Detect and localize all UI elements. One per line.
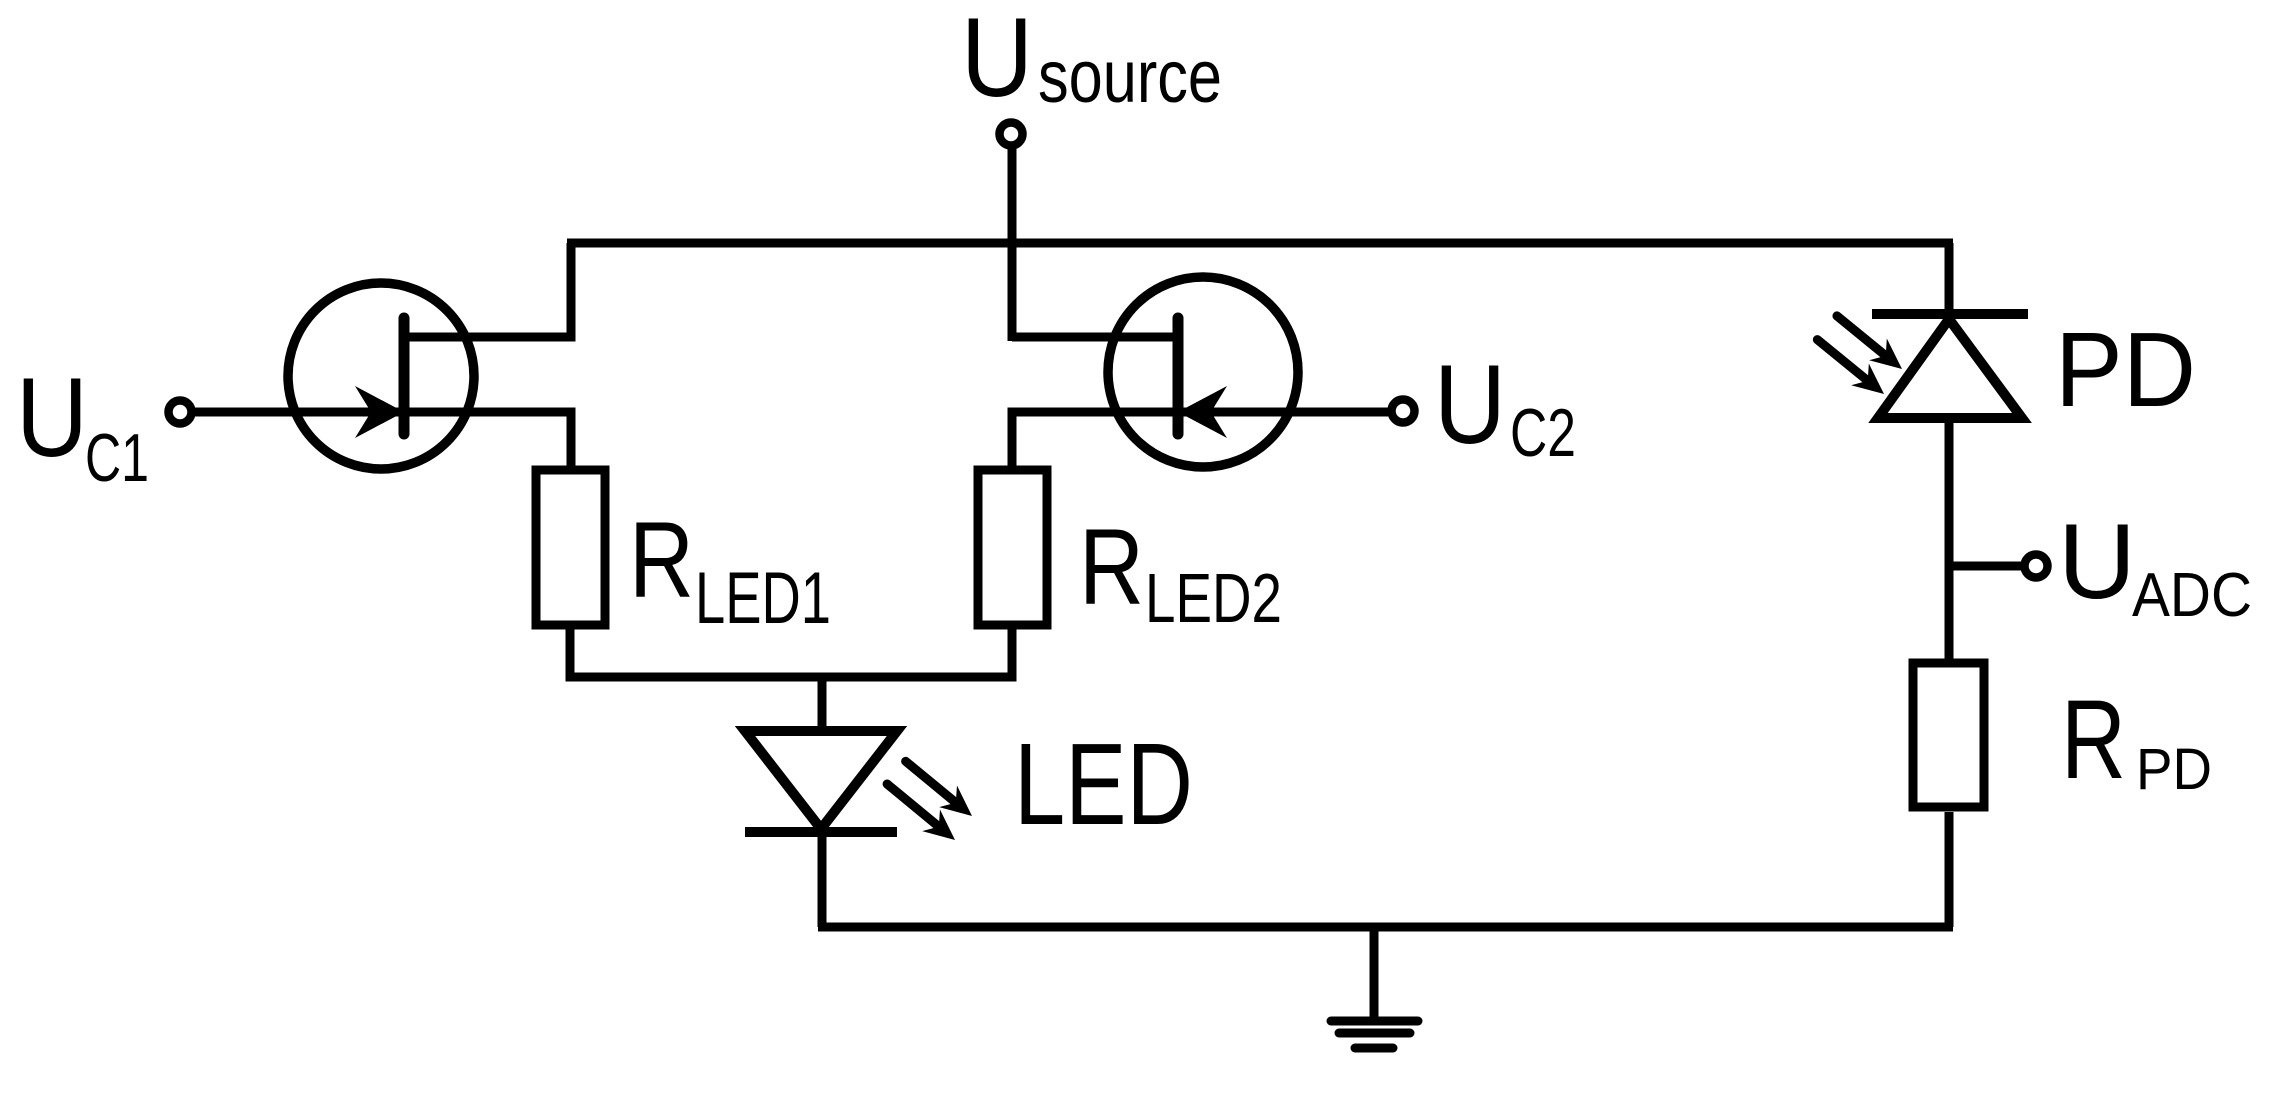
wire top rail xyxy=(567,239,1953,248)
wire T2 collector lead xyxy=(1012,333,1178,342)
label U_source xyxy=(961,0,1222,120)
svg-text:C2: C2 xyxy=(1510,395,1576,471)
wire T1 collector lead xyxy=(404,243,571,337)
wire U_ADC branch xyxy=(1949,562,2022,571)
LED emission arrow 2 xyxy=(878,773,964,851)
PD light arrow 1 xyxy=(1828,305,1911,380)
label U_ADC xyxy=(2058,501,2252,630)
svg-text:LED2: LED2 xyxy=(1145,559,1282,637)
wire bottom rail xyxy=(818,923,1953,932)
label R_LED2 xyxy=(1079,506,1282,637)
node U_C1 terminal xyxy=(169,401,192,424)
transistor T1 xyxy=(288,283,474,469)
LED emission arrow 1 xyxy=(897,750,981,826)
wire PD cathode lead xyxy=(1945,418,1954,662)
ground xyxy=(1331,927,1418,1048)
PD light arrow 2 xyxy=(1809,329,1893,405)
wire T1 emitter lead xyxy=(195,412,571,466)
svg-text:R: R xyxy=(2061,677,2126,802)
label R_LED1 xyxy=(629,499,831,639)
svg-text:ADC: ADC xyxy=(2132,561,2252,630)
label R_PD xyxy=(2061,677,2212,802)
svg-text:LED: LED xyxy=(1014,719,1193,849)
transistor T2 xyxy=(1108,277,1298,467)
svg-text:U: U xyxy=(2058,501,2136,621)
LED diode xyxy=(745,731,897,832)
node U_C2 terminal xyxy=(1392,400,1415,423)
node U_ADC terminal xyxy=(2025,555,2048,578)
label LED xyxy=(1014,719,1193,849)
node U_source terminal xyxy=(1000,123,1023,146)
svg-text:U: U xyxy=(961,0,1033,120)
svg-text:R: R xyxy=(629,499,694,620)
resistor R_LED1 xyxy=(536,470,605,625)
svg-text:C1: C1 xyxy=(85,420,149,496)
wire PD top lead xyxy=(1945,243,1954,317)
svg-text:PD: PD xyxy=(2136,737,2212,802)
wire R_LED1 bottom lead, tie line, R_LED2 bottom lead xyxy=(570,629,1012,677)
wire U_source drop xyxy=(1008,148,1017,341)
wire T2 emitter lead xyxy=(1012,412,1388,466)
svg-text:PD: PD xyxy=(2055,311,2196,429)
photodiode PD xyxy=(1872,314,2028,418)
svg-text:U: U xyxy=(1434,342,1506,467)
label U_C2 xyxy=(1434,342,1576,471)
resistor R_LED2 xyxy=(978,470,1047,625)
svg-text:source: source xyxy=(1038,35,1222,118)
svg-text:LED1: LED1 xyxy=(695,558,831,639)
resistor R_PD xyxy=(1913,663,1984,807)
svg-text:R: R xyxy=(1079,506,1144,627)
svg-text:U: U xyxy=(16,355,88,480)
label PD xyxy=(2055,311,2196,429)
label U_C1 xyxy=(16,355,149,496)
wire R_PD bottom lead xyxy=(1945,812,1954,927)
wire LED anode stub xyxy=(818,677,827,731)
wire LED cathode lead xyxy=(818,832,827,927)
